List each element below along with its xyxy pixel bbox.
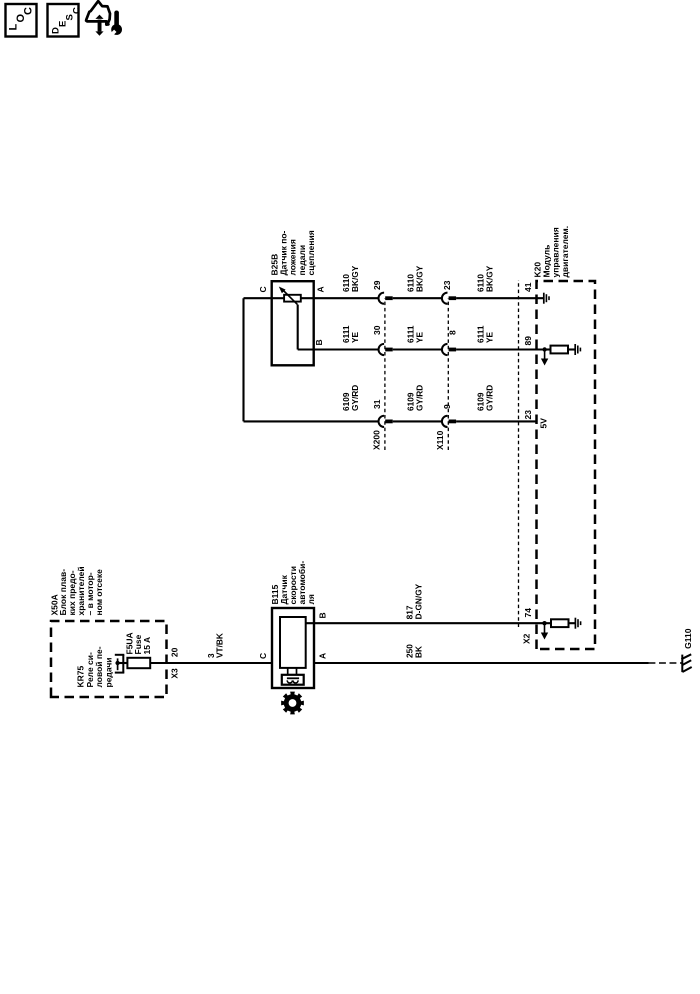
svg-text:GY/RD: GY/RD — [415, 385, 425, 411]
X2 label — [522, 633, 532, 644]
wire 3 VT/BK label — [206, 633, 224, 658]
resistor inside ECM (6111) — [551, 346, 569, 354]
ground after resistor (817) — [575, 618, 580, 629]
svg-text:X3: X3 — [169, 668, 179, 679]
wire 250 BK label — [404, 644, 423, 658]
connector X200 dashed tie line — [384, 298, 386, 450]
pin 29 label — [372, 280, 382, 290]
svg-text:GY/RD: GY/RD — [350, 385, 360, 411]
pin 23 label — [442, 280, 452, 290]
relay output tap with junction dot — [115, 658, 119, 670]
svg-text:редачи: редачи — [103, 658, 113, 688]
ground G110 symbol — [681, 654, 691, 672]
wire resistor to ground (6111) — [568, 348, 575, 350]
svg-text:89: 89 — [523, 336, 533, 346]
pin 89 label — [523, 336, 533, 346]
svg-text:E: E — [58, 21, 69, 27]
DESC legend box — [48, 4, 83, 37]
svg-text:BK/GY: BK/GY — [350, 265, 360, 292]
svg-text:GY/RD: GY/RD — [485, 385, 495, 411]
svg-text:BK: BK — [413, 646, 423, 658]
K20 label text — [533, 226, 570, 278]
pickup coil arcs — [287, 680, 298, 683]
wire relay to fuse — [118, 662, 128, 664]
wire 6111 YE label row 3 — [476, 325, 495, 343]
svg-text:9: 9 — [442, 404, 452, 409]
connector X110 terminal on 6111 — [442, 344, 456, 355]
wire 6111 YE label row 1 — [341, 325, 360, 343]
potentiometer resistor element — [284, 295, 301, 302]
ground after resistor (6111) — [575, 344, 580, 355]
wire 6109 GY/RD label row 1 — [341, 385, 360, 411]
connector X200 terminal on 6111 — [379, 344, 393, 355]
svg-text:23: 23 — [442, 280, 452, 290]
wire 6109 GY/RD label row 3 — [476, 385, 495, 411]
relay KR75 label — [76, 646, 114, 687]
wire 6110 BK/GY segment 3 — [456, 297, 543, 299]
wire 817 D-GN/GY — [306, 622, 545, 624]
sensor B115 box — [272, 608, 314, 688]
pin 23 label (ECM 6109) — [523, 410, 533, 420]
wire 6109 GY/RD label row 2 — [406, 385, 425, 411]
resistor inside ECM (817) — [551, 619, 569, 627]
pin 8 label — [448, 330, 458, 335]
connector X110 terminal on 6110 — [442, 293, 456, 304]
svg-text:YE: YE — [485, 331, 495, 343]
pin 74 label — [523, 608, 533, 618]
svg-text:двигателем.: двигателем. — [560, 226, 570, 278]
continuation arrow at pin 89 — [541, 350, 548, 366]
wire 6111 YE label row 2 — [406, 325, 425, 343]
gear icon — [281, 692, 304, 715]
ECM connector X2 dashed line — [518, 280, 520, 627]
svg-text:S: S — [65, 14, 76, 20]
wire 250 BK dashed section — [649, 662, 682, 664]
wire 6110 BK/GY label row 2 — [406, 265, 425, 292]
svg-text:B: B — [317, 612, 327, 618]
svg-text:15 A: 15 A — [142, 637, 152, 655]
svg-text:74: 74 — [523, 608, 533, 618]
pin 9 label — [442, 404, 452, 409]
pin 30 label — [372, 325, 382, 335]
wire 5V feed from ECM to B25B pin C — [242, 298, 244, 421]
svg-text:31: 31 — [372, 399, 382, 409]
svg-text:A: A — [315, 286, 325, 292]
connector X200 terminal on 6109 — [379, 416, 393, 427]
LOC legend box — [6, 4, 37, 37]
svg-text:YE: YE — [350, 331, 360, 343]
X200 label — [372, 430, 382, 450]
svg-text:8: 8 — [448, 330, 458, 335]
B115 pin A letter — [317, 653, 327, 659]
ground at pin 41 — [544, 293, 549, 304]
svg-text:D: D — [51, 27, 62, 34]
junction at pin 89 — [542, 347, 546, 351]
potentiometer arrow — [279, 287, 298, 305]
svg-text:D-GN/GY: D-GN/GY — [413, 583, 423, 619]
F5UA 15A value label — [124, 632, 152, 654]
svg-text:ном отсеке: ном отсеке — [94, 569, 104, 616]
svg-text:YE: YE — [415, 331, 425, 343]
wire fuse to B115 pin C — [150, 662, 272, 664]
svg-text:23: 23 — [523, 410, 533, 420]
wire 6109 GY/RD segment 1 — [244, 420, 379, 422]
svg-text:C: C — [72, 7, 83, 14]
svg-text:C: C — [258, 286, 268, 292]
wire 6109 GY/RD segment 3 — [456, 420, 536, 422]
pin 31 label — [372, 399, 382, 409]
B25B label text — [270, 230, 316, 275]
B115 label text — [270, 561, 316, 605]
wire 250 BK — [314, 662, 649, 664]
B115 magnetic pickup box — [282, 675, 304, 685]
wire 6110 BK/GY label row 3 — [476, 265, 495, 292]
svg-text:X200: X200 — [372, 430, 382, 450]
wire inside B25B top — [272, 297, 284, 299]
svg-text:VT/BK: VT/BK — [214, 633, 224, 658]
B25B pin B letter — [314, 339, 324, 345]
continuation arrow at pin 74 — [541, 623, 548, 639]
5V label — [538, 418, 548, 429]
svg-text:C: C — [258, 653, 268, 659]
junction at pin 74 — [542, 621, 546, 625]
svg-text:G110: G110 — [683, 628, 693, 649]
pin 41 label — [523, 282, 533, 292]
svg-text:41: 41 — [523, 282, 533, 292]
X110 label — [435, 430, 445, 450]
G110 label — [683, 628, 693, 649]
fuse F5UA — [127, 658, 150, 668]
ECM K20 dashed box — [537, 281, 596, 649]
svg-text:сцепления: сцепления — [306, 230, 316, 275]
wire 6110 BK/GY label row 1 — [341, 265, 360, 292]
svg-text:29: 29 — [372, 280, 382, 290]
svg-text:ля: ля — [306, 594, 316, 604]
svg-text:X2: X2 — [522, 633, 532, 644]
relay KR75 contact bracket — [115, 655, 125, 673]
sensor B25B box — [272, 281, 314, 365]
svg-text:B: B — [314, 339, 324, 345]
B115 pin C letter — [258, 653, 268, 659]
svg-text:BK/GY: BK/GY — [415, 265, 425, 292]
wire to resistor pin 74 — [545, 622, 552, 624]
pickup core bar — [287, 677, 299, 679]
wire 6110 BK/GY segment 2 — [393, 297, 442, 299]
svg-text:5V: 5V — [538, 418, 548, 429]
pin 20 label — [169, 647, 179, 657]
wire 817 D-GN/GY label — [404, 583, 423, 619]
svg-text:A: A — [317, 653, 327, 659]
wire 6110 BK/GY segment 1 — [301, 297, 379, 299]
connector X110 terminal on 6109 — [442, 416, 456, 427]
svg-text:30: 30 — [372, 325, 382, 335]
wire 6111 YE segment 2 — [393, 348, 442, 350]
connector X3 label — [169, 668, 179, 679]
B115 pin B letter — [317, 612, 327, 618]
fuse block X50A dashed box — [51, 621, 167, 697]
B25B pin C letter — [258, 286, 268, 292]
wire resistor to ground (817) — [569, 622, 576, 624]
B25B pin A letter — [315, 286, 325, 292]
wiper wire inside B25B — [297, 305, 299, 350]
svg-text:X110: X110 — [435, 430, 445, 450]
wire 6109 GY/RD segment 2 — [393, 420, 442, 422]
svg-text:L: L — [8, 24, 20, 31]
B115 inner element box — [280, 617, 306, 668]
svg-text:C: C — [23, 7, 35, 15]
X50A label text — [49, 566, 104, 615]
svg-text:20: 20 — [169, 647, 179, 657]
wire 6111 YE segment 3 — [456, 348, 544, 350]
connector X200 terminal on 6110 — [379, 293, 393, 304]
wire 6111 YE segment 1 — [298, 348, 379, 350]
svg-text:BK/GY: BK/GY — [485, 265, 495, 292]
B115 pickup stem lines — [288, 668, 297, 675]
service vehicle icon with double arrow and wrench — [86, 1, 122, 36]
wire to resistor pin 89 — [545, 348, 551, 350]
connector X110 dashed tie line — [447, 298, 449, 450]
